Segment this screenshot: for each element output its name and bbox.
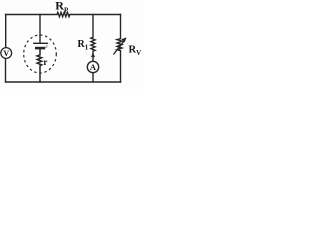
svg-text:r: r (43, 57, 47, 67)
svg-text:A: A (90, 62, 97, 72)
svg-text:ε: ε (45, 43, 48, 50)
svg-text:V: V (3, 49, 9, 58)
